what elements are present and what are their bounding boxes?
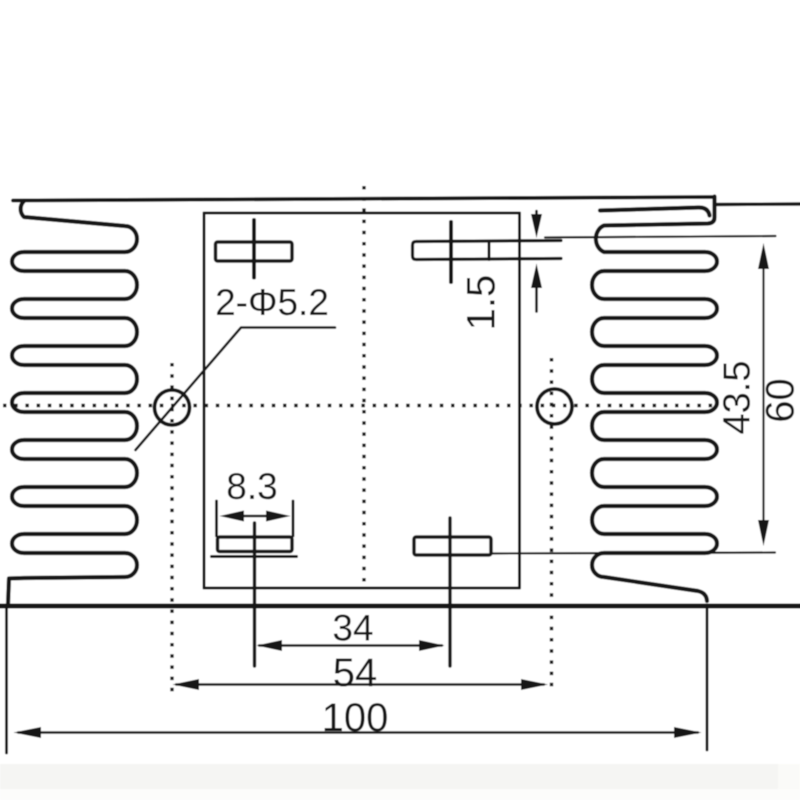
right fin first fin top line [600, 207, 710, 215]
dimension 8.3 arrow line [230, 515, 280, 518]
dimension 1.5 lower arrow [535, 288, 538, 312]
svg-text:8.3: 8.3 [226, 466, 277, 507]
dimension 34 right arrowhead [419, 640, 445, 651]
top-right slot [413, 241, 562, 260]
bottom-right slot centerline / 34 extension [448, 518, 451, 666]
dimension 8.3 left extension tick [215, 501, 218, 536]
left hole dotted centerline [170, 363, 173, 699]
bottom-left slot bottom line [212, 555, 297, 558]
right fin serpentine [592, 197, 717, 602]
dimension 8.3 right extension tick [292, 501, 295, 536]
dimension 43.5 line [762, 258, 764, 530]
label 2-PHI5.2 leader line [136, 328, 336, 451]
mounting plate outline [204, 213, 520, 588]
dimension 54 right arrowhead [521, 679, 548, 690]
dimension 100 left arrowhead [14, 727, 42, 738]
dimension 8.3 right arrowhead [266, 511, 291, 522]
bottom-right slot [414, 537, 491, 555]
left mounting hole [155, 390, 190, 425]
dimension 43.5 top arrowhead [758, 243, 769, 269]
dimension 43.5 bottom arrowhead [758, 520, 769, 546]
photo background band bottom [0, 764, 778, 789]
svg-text:1.5: 1.5 [460, 275, 504, 331]
dimension 100 right extension [706, 607, 709, 750]
dimension 54 left arrowhead [173, 679, 200, 690]
right mounting hole [537, 389, 572, 424]
top-left slot centerline [252, 220, 256, 278]
heatsink top edge right of step [715, 202, 800, 206]
dimension 8.3 left arrowhead [220, 511, 245, 522]
extension line top for 1.5 and 43.5 [545, 236, 776, 238]
svg-text:43.5: 43.5 [717, 361, 759, 435]
svg-text:2-Φ5.2: 2-Φ5.2 [215, 282, 329, 323]
dimension 1.5 upper arrow [535, 211, 538, 228]
heatsink base bottom line [0, 604, 800, 609]
svg-text:34: 34 [332, 608, 373, 649]
horizontal dotted centerline [3, 404, 719, 407]
svg-text:100: 100 [322, 696, 389, 740]
bottom-left slot [218, 537, 293, 552]
svg-text:54: 54 [333, 651, 378, 695]
top-right slot centerline [449, 222, 453, 282]
vertical dotted centerline [362, 186, 365, 584]
top-right slot inner cap [488, 242, 491, 260]
left fin serpentine [8, 201, 137, 604]
svg-text:60: 60 [759, 378, 800, 423]
dimension 100 left extension [5, 608, 8, 753]
dimension 54 line [176, 683, 544, 685]
dimension 100 line [18, 731, 698, 733]
dimension 34 left arrowhead [257, 640, 283, 651]
dimension 34 line [259, 644, 442, 646]
extension line bottom for 43.5 [492, 553, 776, 554]
bottom-left slot centerline / 34 extension [253, 523, 256, 666]
top-left slot [216, 242, 293, 261]
dimension 100 right arrowhead [674, 727, 702, 738]
heatsink top edge [13, 197, 714, 201]
right hole dotted centerline [550, 358, 553, 693]
